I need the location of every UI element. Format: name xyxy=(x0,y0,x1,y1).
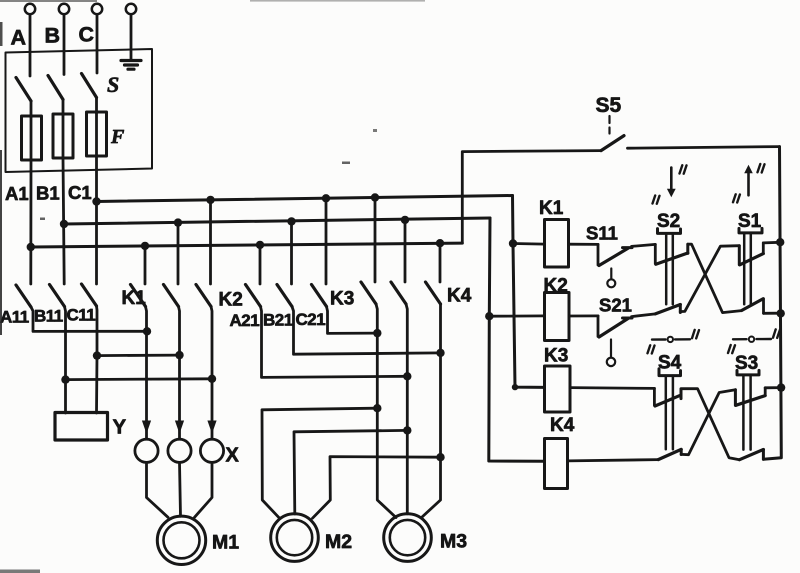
wire riser to S5 xyxy=(462,151,601,244)
arrow ammeter 3 xyxy=(207,421,216,434)
wire B11 into Y xyxy=(64,380,67,413)
node bus3 tap K2 pole1 xyxy=(141,242,149,250)
svg-text:K3: K3 xyxy=(330,289,354,310)
ground xyxy=(121,61,141,70)
scan smudge bottom-left xyxy=(0,570,40,573)
svg-text:A21: A21 xyxy=(230,311,260,330)
node rail S3 upper xyxy=(777,383,785,391)
label A21 xyxy=(230,311,260,330)
speck 3 xyxy=(373,129,377,132)
bus 1 phase C xyxy=(97,196,513,202)
fuse F phase A xyxy=(22,101,42,160)
node bus3 tap K4 pole3 xyxy=(436,239,444,247)
svg-text:X: X xyxy=(226,445,240,467)
svg-text:S2: S2 xyxy=(657,211,680,232)
svg-text:B11: B11 xyxy=(34,307,63,326)
quote after S4 mark xyxy=(692,330,699,339)
svg-text:B1: B1 xyxy=(36,183,60,204)
wire C1 down to contact C11 xyxy=(95,112,98,284)
wire X1 to M1 xyxy=(147,462,169,517)
node M2 right tap xyxy=(436,453,444,461)
label B xyxy=(45,24,61,48)
contact K1 pole A11 blade xyxy=(16,285,31,307)
wire to ground xyxy=(130,14,133,60)
quote after S2 arrow xyxy=(680,165,687,174)
svg-text:M3: M3 xyxy=(440,531,467,553)
speck 2 xyxy=(342,162,350,165)
fuse F phase C xyxy=(87,98,107,157)
label S5 xyxy=(596,94,622,117)
wire B11 to node xyxy=(65,307,66,380)
wire left rail from bus2 xyxy=(489,218,545,461)
motor M3 xyxy=(384,514,432,562)
svg-text:S21: S21 xyxy=(599,295,632,316)
wire X2 to M1 xyxy=(180,462,181,516)
pushbutton S21 xyxy=(598,316,632,366)
node rail S1 lower xyxy=(777,309,785,317)
svg-text:S: S xyxy=(107,72,119,97)
node A11-K2p1 xyxy=(143,327,151,335)
node rail2 K2 branch xyxy=(485,312,493,320)
svg-text:C: C xyxy=(79,23,95,47)
label C21 xyxy=(296,310,326,329)
ammeter X3 xyxy=(200,439,223,462)
svg-text:A: A xyxy=(11,26,27,50)
node bus1 tap K4 pole1 xyxy=(371,193,379,201)
contact K1 pole B11 blade xyxy=(50,285,65,307)
label K1 coil xyxy=(539,198,564,219)
label K1 xyxy=(122,288,147,309)
wire A1 down to contact A11 xyxy=(29,116,32,284)
cam switch S4 xyxy=(654,369,681,460)
terminal PE xyxy=(126,4,136,14)
wire K1 branch xyxy=(513,242,545,245)
node rail1 K1 branch xyxy=(509,239,517,247)
wire phase C input xyxy=(96,14,99,73)
wire S11 to S2 xyxy=(632,244,656,246)
bus 2 phase B xyxy=(64,218,490,224)
label C11 xyxy=(67,306,96,325)
label S21 xyxy=(599,295,632,316)
node bus3 tap K3 pole1 xyxy=(256,241,264,249)
fuse F phase B xyxy=(53,100,73,159)
label K3 xyxy=(330,289,354,310)
svg-text:C11: C11 xyxy=(67,306,96,325)
scan edge top middle xyxy=(250,0,425,2)
svg-text:C21: C21 xyxy=(296,310,326,329)
scan edge top-left xyxy=(0,22,3,46)
wire X3 to M1 xyxy=(195,462,213,517)
label X xyxy=(226,445,240,467)
svg-text:K2: K2 xyxy=(544,276,568,297)
svg-text:K1: K1 xyxy=(539,198,564,219)
svg-text:S3: S3 xyxy=(735,353,758,374)
switch S blade phase B xyxy=(48,76,63,100)
node rail1 K3 corner xyxy=(512,384,518,390)
label B1 xyxy=(36,183,60,204)
node M2 left tap xyxy=(373,404,381,412)
ammeter X2 xyxy=(168,439,191,462)
svg-text:K2: K2 xyxy=(219,290,243,311)
label S xyxy=(107,72,119,97)
label K4 xyxy=(447,286,472,307)
bus 3 phase A xyxy=(31,243,463,247)
motor M2 xyxy=(271,514,319,562)
svg-text:K4: K4 xyxy=(550,415,575,436)
transformer Y box xyxy=(55,413,108,441)
node B11 junction xyxy=(61,375,69,383)
ammeter X1 xyxy=(135,439,158,462)
svg-text:B: B xyxy=(45,24,61,48)
label Y xyxy=(113,416,127,439)
svg-text:S5: S5 xyxy=(596,94,622,117)
arrow S1 up xyxy=(744,165,753,196)
svg-text:S4: S4 xyxy=(658,353,682,374)
svg-text:M2: M2 xyxy=(325,531,352,553)
node K2p2-C11 xyxy=(175,351,183,359)
wire X cross upper A xyxy=(688,244,742,313)
label A xyxy=(11,26,27,50)
terminal A xyxy=(25,4,35,14)
label S4 xyxy=(658,353,682,374)
arrow ammeter 2 xyxy=(175,421,184,434)
svg-text:S11: S11 xyxy=(586,223,618,244)
speck 1 xyxy=(40,218,45,221)
release mark S3 xyxy=(733,337,771,342)
label C xyxy=(79,23,95,47)
wire phase A input xyxy=(29,14,32,76)
svg-text:C1: C1 xyxy=(68,182,92,203)
terminal B xyxy=(59,4,69,14)
wire M2 feed right xyxy=(313,457,441,519)
terminal C xyxy=(92,4,102,14)
label S2 xyxy=(657,211,680,232)
label M1 xyxy=(212,532,239,554)
switch S5 blade xyxy=(601,136,624,151)
scan edge top xyxy=(0,0,97,2)
cam switch S2 xyxy=(655,229,688,314)
contact K2 pole3 xyxy=(196,200,212,439)
wire X cross lower C xyxy=(681,389,740,460)
wire K2 to S21 xyxy=(569,314,598,317)
wire X cross lower D xyxy=(681,390,735,455)
cam switch S1 xyxy=(739,228,781,313)
label F xyxy=(110,126,125,148)
arrow S2 down xyxy=(667,168,676,198)
svg-text:Y: Y xyxy=(113,416,127,439)
node bus1-C1 xyxy=(92,197,100,205)
scan edge left xyxy=(0,150,2,335)
svg-text:K4: K4 xyxy=(447,286,472,307)
label K2 xyxy=(219,290,243,311)
wire K3 to S4 xyxy=(570,386,654,390)
wire X cross upper B xyxy=(680,246,739,312)
svg-text:A1: A1 xyxy=(5,183,29,204)
coil K4 xyxy=(545,439,568,489)
coil K1 xyxy=(545,220,569,268)
wire C11 cross to K2p2 xyxy=(97,354,180,357)
cam switch S3 xyxy=(735,370,781,459)
label K4 coil xyxy=(550,415,575,436)
wire C11 to node xyxy=(95,306,98,356)
node C11 junction xyxy=(93,351,101,359)
motor M1 xyxy=(157,516,205,564)
node bus2-B1 xyxy=(60,220,68,228)
switch S blade phase C xyxy=(82,74,97,98)
wire B11 cross to K2p3 xyxy=(66,377,213,381)
label C1 xyxy=(68,182,92,203)
contact K2 pole1 xyxy=(131,246,147,439)
node bus1 tap K3 pole3 xyxy=(322,194,330,202)
quote before S3 xyxy=(728,345,735,353)
wire K1 to S11 xyxy=(569,243,599,246)
label B21 xyxy=(263,311,293,330)
contact K4 pole1 xyxy=(361,198,396,518)
label S3 xyxy=(735,353,758,374)
contact K3 pole1 xyxy=(246,245,408,378)
wire K2 branch xyxy=(489,314,544,317)
label S1 xyxy=(738,211,762,232)
node rail S1 upper xyxy=(776,238,784,246)
node K3p2-K4p3 xyxy=(436,349,444,357)
node bus2 tap K3 pole2 xyxy=(287,217,295,225)
wire A11 to node xyxy=(31,307,147,331)
label K2 coil xyxy=(544,276,568,297)
node bus3-A1 xyxy=(27,243,35,251)
node K2p3-B11 xyxy=(208,375,216,383)
node bus2 tap K2 pole2 xyxy=(174,218,182,226)
wire C11 into Y xyxy=(95,356,98,413)
coil K2 xyxy=(545,293,570,341)
wire phase B input xyxy=(63,14,66,74)
quote after S3 mark xyxy=(773,329,780,338)
arrow ammeter 1 xyxy=(142,421,151,434)
wire K4 to S4 lower xyxy=(568,460,659,461)
contact K2 pole2 xyxy=(164,223,180,439)
svg-text:K3: K3 xyxy=(544,346,568,367)
contact K4 pole2 xyxy=(391,220,407,514)
contact K4 pole3 xyxy=(422,243,441,517)
wire left rail from bus1 xyxy=(513,196,545,388)
svg-text:M1: M1 xyxy=(212,532,239,554)
wire S21 to S2 lower xyxy=(632,314,656,317)
node K3p3-K4p1 xyxy=(373,329,381,337)
wire M2 feed middle xyxy=(294,430,407,514)
contact K3 pole3 xyxy=(312,198,378,333)
wire S5 to right rail xyxy=(628,147,780,149)
S5 dashed link xyxy=(608,116,610,134)
coil K3 xyxy=(545,366,571,412)
wire right rail xyxy=(763,147,781,460)
quote before S1 xyxy=(733,194,740,202)
svg-text:F: F xyxy=(110,126,125,148)
node M2 middle tap xyxy=(403,426,411,434)
quote before S4 xyxy=(648,345,655,353)
node bus2 tap K4 pole2 xyxy=(401,216,409,224)
contact K3 pole2 xyxy=(277,221,441,354)
node K3p1-K4p2 xyxy=(403,372,411,380)
label S11 xyxy=(586,223,618,244)
label M3 xyxy=(440,531,467,553)
label M2 xyxy=(325,531,352,553)
svg-text:B21: B21 xyxy=(263,311,293,330)
node bus1 tap K2 pole3 xyxy=(206,196,214,204)
wire B1 down to contact B11 xyxy=(63,114,64,284)
contact K1 pole C11 blade xyxy=(82,284,97,306)
label B11 xyxy=(34,307,63,326)
label K3 coil xyxy=(544,346,568,367)
switch S blade phase A xyxy=(16,78,31,102)
quote after S1 arrow xyxy=(758,164,765,173)
svg-text:S1: S1 xyxy=(738,211,762,232)
switch-fuse box xyxy=(6,49,153,172)
quote before S2 xyxy=(653,196,660,204)
label A11 xyxy=(0,308,29,327)
pushbutton S11 xyxy=(598,244,632,287)
svg-text:A11: A11 xyxy=(0,308,29,327)
label A1 xyxy=(5,183,29,204)
release mark S4 xyxy=(652,337,690,342)
wire M2 feed left xyxy=(262,408,377,518)
